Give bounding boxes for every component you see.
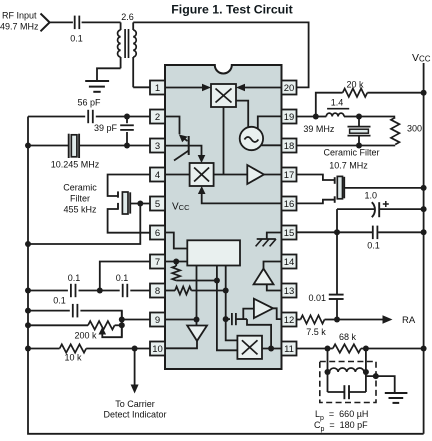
wire pin 11 row (297, 348, 333, 350)
svg-text:3: 3 (155, 141, 160, 152)
wire feedback loop (247, 319, 271, 348)
svg-text:2.6: 2.6 (121, 12, 134, 22)
ceramic filter FL2 10.7 MHz (334, 177, 336, 184)
wire pin3 to mixer2 (165, 146, 202, 156)
svg-text:15: 15 (284, 228, 295, 239)
pin 1 (150, 81, 165, 95)
svg-text:8: 8 (155, 286, 160, 297)
vertical C to mixer3 (226, 266, 238, 341)
wire pot row (28, 324, 88, 326)
svg-text:7: 7 (155, 257, 160, 268)
svg-text:39 pF: 39 pF (94, 123, 118, 133)
svg-text:Ceramic: Ceramic (63, 183, 97, 193)
node Lp left (325, 369, 331, 375)
svg-text:14: 14 (284, 257, 295, 268)
wire pin 17 to filter (297, 175, 336, 181)
node rail pin10 (25, 346, 31, 352)
wire to carrier detect arrow (134, 349, 136, 385)
resistor internal (pin7) (172, 266, 180, 281)
pin 13 (282, 284, 297, 298)
amplifier (detector, up) (254, 269, 274, 285)
pin 10 (150, 342, 165, 356)
wire pot node vertical (121, 311, 123, 338)
node rail pin3 (25, 143, 31, 149)
node pin7 resistor (173, 259, 179, 265)
node VCC pin11 (421, 346, 427, 352)
pin 9 (150, 313, 165, 327)
node pin7/8 junction (97, 288, 103, 294)
transistor Q1 (osc) (188, 136, 190, 155)
svg-text:0.1: 0.1 (367, 241, 380, 251)
capacitor Cp (328, 391, 345, 393)
wire pin 9 (122, 319, 150, 321)
capacitor 0.1 (b) (122, 284, 124, 297)
svg-text:13: 13 (284, 286, 295, 297)
wire pin 2 row (28, 116, 85, 118)
capacitor 39 pF (126, 117, 128, 124)
svg-text:Figure 1. Test Circuit: Figure 1. Test Circuit (171, 3, 292, 17)
node rail pin8 (25, 288, 31, 294)
VCC rail (423, 63, 425, 434)
svg-text:18: 18 (284, 141, 295, 152)
wire filter to VCC rail (344, 187, 423, 189)
svg-text:0.1: 0.1 (68, 273, 81, 283)
crystal Y1 10.245 MHz (68, 134, 70, 158)
svg-text:Ceramic Filter: Ceramic Filter (323, 148, 379, 158)
ceramic filter FL1 455 kHz (117, 191, 119, 197)
svg-text:20: 20 (284, 83, 295, 94)
wire pin 18 row (297, 145, 396, 147)
wire 0.1c row (28, 310, 70, 312)
pin 16 (282, 197, 297, 211)
node VCC 20k (421, 90, 427, 96)
wire pin 19 row (297, 116, 316, 118)
wire tank to ground (366, 376, 395, 392)
pin 4 (150, 168, 165, 182)
svg-text:4: 4 (155, 170, 160, 181)
resistor 7.5 k (301, 315, 325, 323)
dashed tank box (320, 362, 376, 403)
svg-text:VCC: VCC (172, 202, 190, 213)
node pin3/39pF junction (124, 143, 130, 149)
node rail 244 (25, 241, 31, 247)
RF input chevron (41, 14, 50, 32)
svg-text:7.5 k: 7.5 k (306, 327, 326, 337)
svg-text:200 k: 200 k (74, 331, 97, 341)
wire pin7 to block (165, 261, 187, 263)
svg-text:Filter: Filter (70, 194, 90, 204)
node C cap (223, 316, 229, 322)
node 39MHz bottom (356, 143, 362, 149)
svg-text:Detect Indicator: Detect Indicator (103, 410, 166, 420)
tank left wire (327, 349, 329, 393)
pin 18 (282, 139, 297, 153)
svg-text:300: 300 (407, 124, 422, 134)
svg-text:20 k: 20 k (346, 80, 364, 90)
svg-text:0.1: 0.1 (70, 34, 83, 44)
tank right wire (365, 349, 367, 393)
pin 19 (282, 110, 297, 124)
inductor Lp (330, 368, 364, 372)
ground (tank) (385, 392, 408, 394)
svg-text:1.0: 1.0 (365, 191, 378, 201)
svg-text:10: 10 (152, 344, 163, 355)
svg-text:16: 16 (284, 199, 295, 210)
pin 14 (282, 255, 297, 269)
svg-text:9: 9 (155, 315, 160, 326)
wire RA arrow (337, 319, 383, 321)
wire pin14 to det amp (264, 262, 282, 269)
node tank left top (325, 346, 331, 352)
wire pin4 to mixer2 (165, 174, 190, 176)
wire pin 16 to filter (297, 200, 336, 204)
capacitor 56 pF (87, 110, 89, 123)
capacitor 0.1 (c) (72, 304, 74, 318)
resistor internal (pin8) (165, 290, 175, 292)
potentiometer 200 k (88, 321, 115, 329)
svg-text:68 k: 68 k (339, 332, 357, 342)
wire amp2 out to pin12 (273, 308, 282, 319)
svg-text:11: 11 (284, 344, 294, 355)
wire filter bottom to pin 6 (108, 209, 150, 233)
pin 17 (282, 168, 297, 182)
svg-text:17: 17 (284, 170, 295, 181)
capacitor 0.1 (a) (70, 284, 72, 297)
capacitor 0.1 (right) (372, 226, 374, 240)
svg-text:0.01: 0.01 (308, 293, 326, 303)
inverter (pin9/10) (187, 326, 207, 341)
node pin9 junction (119, 317, 125, 323)
node rail 0.1c (25, 308, 31, 314)
left ground rail (28, 117, 424, 434)
node pin11 internal (268, 346, 274, 352)
ground (input) (85, 80, 109, 82)
wire pin6 to block (165, 233, 187, 249)
node tank ground (373, 373, 379, 379)
pin 6 (150, 226, 165, 240)
svg-text:To Carrier: To Carrier (115, 399, 155, 409)
wire pin 3 row (28, 145, 69, 147)
wire pin15 to chassis gnd (267, 233, 282, 240)
capacitor 0.01 (336, 232, 338, 294)
svg-text:10 k: 10 k (64, 353, 82, 363)
svg-text:455 kHz: 455 kHz (63, 205, 97, 215)
resistor 68 k (333, 344, 361, 352)
node carrier detect (132, 346, 138, 352)
node pin9 internal (194, 317, 200, 323)
chassis ground (pin15) (257, 238, 276, 240)
vertical B to mixer3 (217, 266, 238, 351)
oscillator (circle) (240, 127, 263, 150)
transformer T1 core (124, 29, 126, 58)
wire pin 4 to filter (108, 175, 150, 197)
svg-text:RF Input: RF Input (2, 11, 37, 21)
node 39MHz top (356, 114, 362, 120)
node C pin8 (223, 288, 229, 294)
svg-text:49.7 MHz: 49.7 MHz (0, 22, 39, 32)
wire pin13 to det amp (267, 284, 282, 290)
svg-text:2: 2 (155, 112, 160, 123)
node pin19 junction (313, 114, 319, 120)
wire T1 primary to ground (97, 68, 121, 80)
wire C 0.1 to T1 (82, 21, 121, 23)
wire osc to mixer1 (236, 101, 248, 128)
svg-text:0.1: 0.1 (116, 273, 129, 283)
wire limiter to pin17 (264, 174, 282, 176)
resistor 300 (391, 118, 399, 145)
pin 3 (150, 139, 165, 153)
svg-text:10.245 MHz: 10.245 MHz (51, 160, 100, 170)
wire inverter to pin10 (165, 341, 197, 348)
transformer T1 secondary (133, 30, 136, 57)
svg-text:0.1: 0.1 (53, 296, 66, 306)
wire pin 7 jog (100, 262, 150, 291)
inductor 1.4 uH (326, 113, 344, 116)
wire pin 10 row (28, 348, 60, 350)
node VCC 1.0 (421, 206, 427, 212)
node pin12 (334, 317, 340, 323)
wire cap to amp2 (243, 309, 254, 320)
IC U1 body (165, 65, 282, 369)
node rail pot (25, 322, 31, 328)
node pin2/39pF junction (124, 114, 130, 120)
svg-text:56 pF: 56 pF (77, 98, 101, 108)
pin 12 (282, 313, 297, 327)
block (IF/RSSI) (187, 240, 240, 265)
wire pin 15 row (297, 231, 373, 233)
wire pin5 node to rail (28, 204, 140, 245)
svg-text:1.4: 1.4 (331, 98, 344, 108)
svg-text:19: 19 (284, 112, 295, 123)
capacitor internal (quad) (226, 318, 230, 320)
node pot junction (119, 322, 125, 328)
vertical A to inverter (196, 266, 198, 326)
wire pin9 internal (165, 319, 197, 321)
crystal 39 MHz (358, 117, 360, 127)
svg-text:RA: RA (402, 315, 416, 326)
svg-text:VCC: VCC (412, 52, 431, 64)
node VCC 0.1 (421, 229, 427, 235)
svg-text:10.7 MHz: 10.7 MHz (329, 160, 368, 170)
wire pin1 to mixer1 (165, 87, 204, 89)
wire mixer1 down (223, 107, 225, 174)
wire pin 8 row (28, 290, 68, 292)
node Lp right (363, 369, 369, 375)
pin 7 (150, 255, 165, 269)
pin 15 (282, 226, 297, 240)
node B 280 (214, 278, 220, 284)
wire T1 secondary top to pin 20 loop (133, 22, 308, 87)
wire RF input to C 0.1 (50, 21, 73, 23)
pin 5 (150, 197, 165, 211)
svg-text:39 MHz: 39 MHz (303, 124, 335, 134)
node pin 5 junction (137, 201, 143, 207)
svg-text:12: 12 (284, 315, 295, 326)
node tank right top (363, 346, 369, 352)
node VCC filter (421, 185, 427, 191)
wire mixer2 to limiter (214, 174, 248, 176)
wire pin19 to osc (258, 116, 282, 129)
wire T1 secondary to pin 1 (133, 86, 150, 88)
pin 20 (282, 81, 297, 95)
wire mixer2 bottom to pin16 (198, 186, 206, 194)
svg-text:5: 5 (155, 199, 160, 210)
wire filter to pin 5 (130, 203, 150, 205)
wire mixer3 to pin11 (262, 348, 282, 350)
pin 11 (282, 342, 297, 356)
wire 20k node to 300 (359, 116, 395, 118)
svg-text:6: 6 (155, 228, 160, 239)
capacitor 0.1 (RF input) (74, 16, 76, 30)
wire pin2 to transistor (165, 117, 180, 135)
mixer U1c (detector) (237, 336, 262, 359)
resistor 10 k (60, 344, 87, 352)
wire pin18 to osc (261, 144, 281, 146)
mixer U1a (1st mixer) (211, 84, 236, 107)
amplifier (op-amp pin12) (254, 299, 273, 318)
svg-text:1: 1 (155, 83, 160, 94)
resistor 20 k (316, 93, 343, 117)
pin 2 (150, 110, 165, 124)
node pin15/0.01 (334, 229, 340, 235)
mixer U1b (2nd mixer) (190, 163, 214, 186)
transformer T1 primary (118, 30, 121, 57)
pin 8 (150, 284, 165, 298)
amplifier (limiter) (247, 165, 264, 184)
capacitor 1.0 polarized (337, 208, 375, 210)
wire pin20 to mixer1 (245, 87, 282, 89)
wire 1.0 corner down (336, 209, 338, 232)
